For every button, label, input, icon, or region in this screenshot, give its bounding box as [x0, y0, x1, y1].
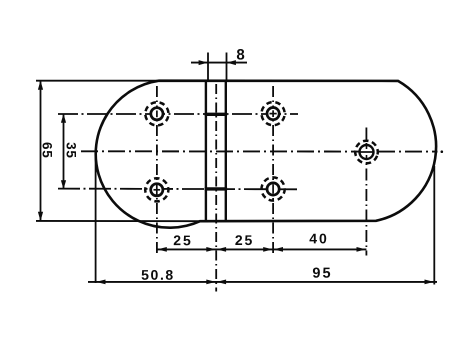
svg-text:25: 25 [235, 232, 254, 248]
dimension row1 line (25/25/40) [157, 248, 367, 250]
arrow row1 at 216 pointing right [206, 247, 216, 252]
svg-text:35: 35 [63, 142, 78, 159]
arrow 35 bottom [61, 180, 66, 189]
hinge knuckle joint bar bottom [205, 187, 227, 190]
arrow row1 at 366 pointing right [357, 247, 367, 252]
arrow 65 top [38, 80, 43, 89]
node hole-row bottom centerline y=189 [58, 188, 297, 191]
hole H2 top-right [257, 97, 289, 129]
arrow 8 left (outside, pointing right) [199, 60, 208, 65]
extension line right extreme (95) [433, 166, 435, 285]
plate outline (stadium shape) [96, 81, 436, 228]
node hole column A centerline x=157 [156, 86, 158, 256]
dimension 8 extension ticks [208, 53, 227, 80]
arrow row2 at 216 pointing right [206, 280, 216, 285]
extension line bottom (65 dim to plate bottom edge) [36, 220, 201, 222]
centerline end dot [441, 150, 444, 153]
dimension 65 line [40, 82, 42, 221]
arrowheads [38, 60, 434, 284]
arrow 8 right (outside, pointing left) [227, 60, 236, 65]
extension line left extreme (50.8) [95, 157, 97, 283]
arrow 65 bottom [38, 212, 43, 221]
dimension row2 line (50.8/95) [88, 281, 437, 283]
hinge knuckle joint bar top [205, 113, 227, 116]
node hinge pin centerline x=216 [215, 84, 217, 292]
node hole column B centerline x=273 [272, 86, 274, 256]
arrow row1 at 273 pointing left [274, 247, 284, 252]
dimension 35 line [63, 115, 65, 189]
node hole-row top centerline y=114 [58, 113, 298, 115]
svg-text:50.8: 50.8 [141, 267, 175, 283]
node right hole centerline x=366 [365, 128, 367, 256]
hole H3 bottom-left [141, 174, 173, 206]
hole H1 top-left [143, 100, 171, 128]
svg-text:25: 25 [173, 232, 192, 248]
hole H4 bottom-right [257, 173, 290, 206]
svg-text:40: 40 [309, 230, 328, 246]
arrow 35 top [61, 114, 66, 123]
svg-text:8: 8 [236, 46, 244, 63]
svg-text:95: 95 [312, 266, 332, 282]
arrow row1 at 157 pointing left [157, 247, 167, 252]
arrow row2 at 434 pointing right [425, 280, 435, 285]
hinge barrel right line [225, 81, 227, 221]
arrow row2 at 216 pointing left [217, 280, 227, 285]
dimension 8 line [191, 62, 247, 64]
arrow row2 at 95.6 pointing left [96, 280, 106, 285]
hinge barrel left line [205, 81, 207, 221]
extension line top (65 dim to plate top edge) [36, 80, 160, 82]
svg-text:65: 65 [40, 142, 55, 159]
arrow row1 at 216 pointing left [217, 247, 227, 252]
centerline horizontal main axis [81, 150, 438, 152]
arrow row1 at 273 pointing right [263, 247, 273, 252]
hole H5 right [352, 138, 381, 167]
